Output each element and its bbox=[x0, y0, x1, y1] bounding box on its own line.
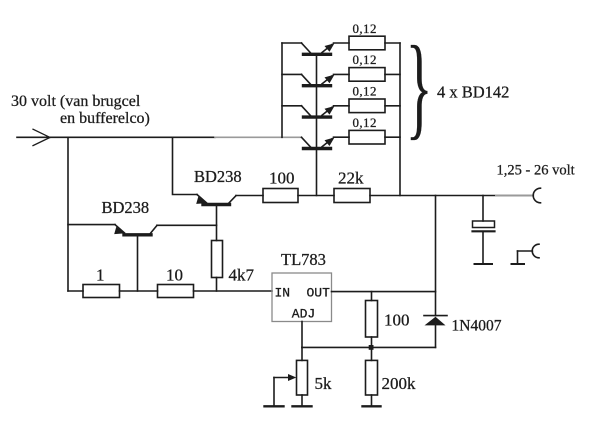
resistor 0,12 (Q3) bbox=[349, 84, 400, 113]
resistor 0,12 (Q1) bbox=[349, 21, 400, 50]
svg-text:}: } bbox=[406, 23, 433, 150]
wire emitter feed T2 bbox=[173, 137, 198, 194]
transistor T2 (BD238) bbox=[196, 195, 236, 241]
wire 100 to 22k bbox=[298, 195, 334, 197]
svg-text:IN: IN bbox=[275, 286, 291, 301]
input arrow bbox=[33, 129, 50, 145]
wire bottom rail ADJ to diode bbox=[302, 346, 436, 348]
wire output rail bbox=[370, 195, 496, 197]
svg-text:0,12: 0,12 bbox=[353, 84, 377, 99]
wire T2 base to resistor 100 bbox=[236, 195, 263, 197]
node junction dot bbox=[369, 345, 374, 350]
wire bottom-left rail bbox=[68, 290, 83, 292]
node input label text bbox=[11, 93, 150, 127]
wire left vertical to lower stage bbox=[67, 137, 69, 291]
wire 10 to TL783 IN bbox=[194, 290, 273, 292]
wire T1 base to T2 collector bbox=[157, 224, 217, 226]
wire base feed Q2 bbox=[282, 73, 302, 75]
wire bank collector vertical bbox=[316, 54, 318, 195]
wire main input rail bbox=[17, 136, 215, 138]
svg-text:100: 100 bbox=[384, 311, 410, 330]
svg-text:ADJ: ADJ bbox=[292, 307, 315, 322]
wire OUT to diode column bbox=[332, 291, 436, 293]
transistor Q1 (BD142) bbox=[302, 43, 350, 54]
wire ADJ lead bbox=[301, 322, 303, 348]
svg-text:BD238: BD238 bbox=[102, 198, 150, 217]
wire base feed Q3 bbox=[282, 105, 302, 107]
transistor T1 (BD238) bbox=[114, 225, 157, 291]
ground (pot) bbox=[293, 405, 312, 407]
node ground jack bbox=[518, 244, 540, 264]
svg-text:100: 100 bbox=[269, 169, 295, 188]
resistor 10 bbox=[158, 266, 194, 298]
node output jack bbox=[533, 188, 540, 203]
svg-text:200k: 200k bbox=[382, 374, 417, 393]
wire bank emitter rail right bbox=[399, 43, 401, 196]
svg-text:1: 1 bbox=[96, 266, 105, 285]
wire 1 to 10 bbox=[120, 290, 158, 292]
svg-text:1,25 - 26 volt: 1,25 - 26 volt bbox=[497, 163, 575, 179]
svg-text:22k: 22k bbox=[338, 169, 364, 188]
ground (200k) bbox=[363, 405, 381, 407]
resistor 4k7 bbox=[212, 241, 255, 292]
resistor 22k bbox=[334, 169, 370, 203]
svg-text:4k7: 4k7 bbox=[229, 266, 255, 285]
svg-text:OUT: OUT bbox=[307, 286, 331, 301]
resistor 1 bbox=[83, 266, 120, 298]
wire base feed Q1 bbox=[282, 42, 302, 44]
svg-text:30 volt (van brugcel: 30 volt (van brugcel bbox=[11, 93, 141, 110]
capacitor C1 (electrolytic) bbox=[473, 196, 495, 264]
transistor Q4 (BD142) bbox=[302, 137, 350, 148]
ground (capacitor) bbox=[475, 263, 493, 265]
op-amp U1 TL783 regulator bbox=[272, 250, 332, 322]
svg-text:5k: 5k bbox=[315, 374, 333, 393]
resistor 200k bbox=[366, 347, 417, 406]
svg-text:0,12: 0,12 bbox=[353, 21, 377, 36]
resistor 0,12 (Q4) bbox=[349, 115, 400, 144]
diode D1 1N4007 bbox=[424, 196, 502, 348]
svg-text:0,12: 0,12 bbox=[353, 115, 377, 130]
potentiometer 5k bbox=[297, 347, 333, 406]
resistor 100 (vertical) bbox=[366, 292, 410, 348]
wire main input rail gray segment bbox=[215, 136, 302, 138]
wire output rail gray segment bbox=[496, 195, 533, 197]
resistor 0,12 (Q2) bbox=[349, 52, 400, 81]
svg-text:0,12: 0,12 bbox=[353, 52, 377, 67]
wire pot wiper bbox=[274, 374, 296, 406]
resistor 100 (base) bbox=[263, 169, 298, 203]
svg-text:1N4007: 1N4007 bbox=[452, 318, 502, 335]
transistor Q2 (BD142) bbox=[302, 74, 350, 85]
transistor Q3 (BD142) bbox=[302, 106, 350, 117]
svg-text:4 x BD142: 4 x BD142 bbox=[437, 83, 509, 102]
svg-text:BD238: BD238 bbox=[194, 167, 242, 186]
ground (wiper) bbox=[265, 405, 284, 407]
wire bank base-feed vertical bbox=[281, 43, 283, 137]
svg-text:TL783: TL783 bbox=[281, 250, 326, 269]
svg-text:en bufferelco): en bufferelco) bbox=[60, 110, 150, 127]
svg-text:10: 10 bbox=[166, 266, 183, 285]
ground (jack) bbox=[512, 263, 525, 265]
wire emitter feed T1 bbox=[68, 224, 115, 226]
